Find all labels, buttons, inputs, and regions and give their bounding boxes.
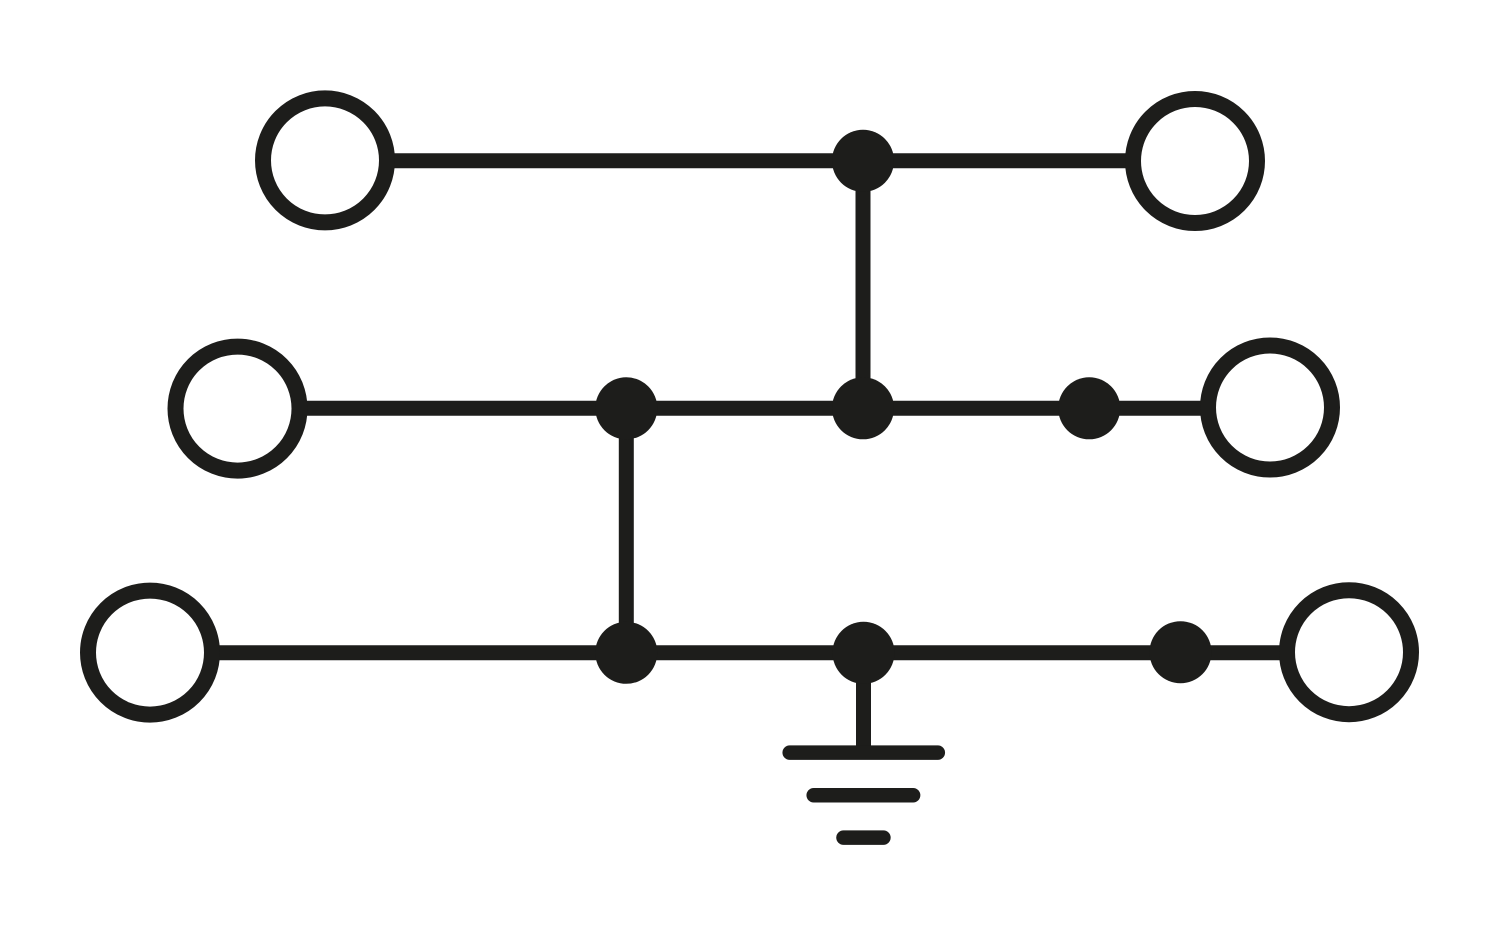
junction node level-1 / bridge [832, 130, 894, 192]
junction node level-3 / ground [833, 622, 895, 684]
junction node level-2 left [595, 377, 657, 439]
ground bar 2 [814, 788, 913, 803]
terminal 3.2 (level-3 right) [1287, 590, 1411, 714]
wire level-3 horizontal [150, 645, 1349, 660]
terminal 2.2 (level-2 right) [1208, 346, 1332, 470]
junction node level-3 left [595, 622, 657, 684]
junction node level-3 right [1150, 621, 1212, 683]
wire level-2 horizontal [238, 401, 1270, 416]
ground bar 1 [790, 745, 938, 760]
wire level-1 to level-2 vertical bridge [856, 161, 871, 408]
terminal 3.1 (level-3 left) [88, 591, 212, 715]
wire level-1 horizontal [325, 153, 1195, 168]
wire level-2 to level-3 vertical bridge [619, 408, 634, 653]
ground stem wire [856, 653, 871, 748]
ground bar 3 [844, 830, 884, 845]
junction node level-2 right [1058, 377, 1120, 439]
terminal 1.1 (level-1 left) [263, 98, 387, 222]
terminal 1.2 (level-1 right) [1133, 99, 1257, 223]
terminal 2.1 (level-2 left) [176, 347, 300, 471]
junction node level-2 / bridge [832, 377, 894, 439]
